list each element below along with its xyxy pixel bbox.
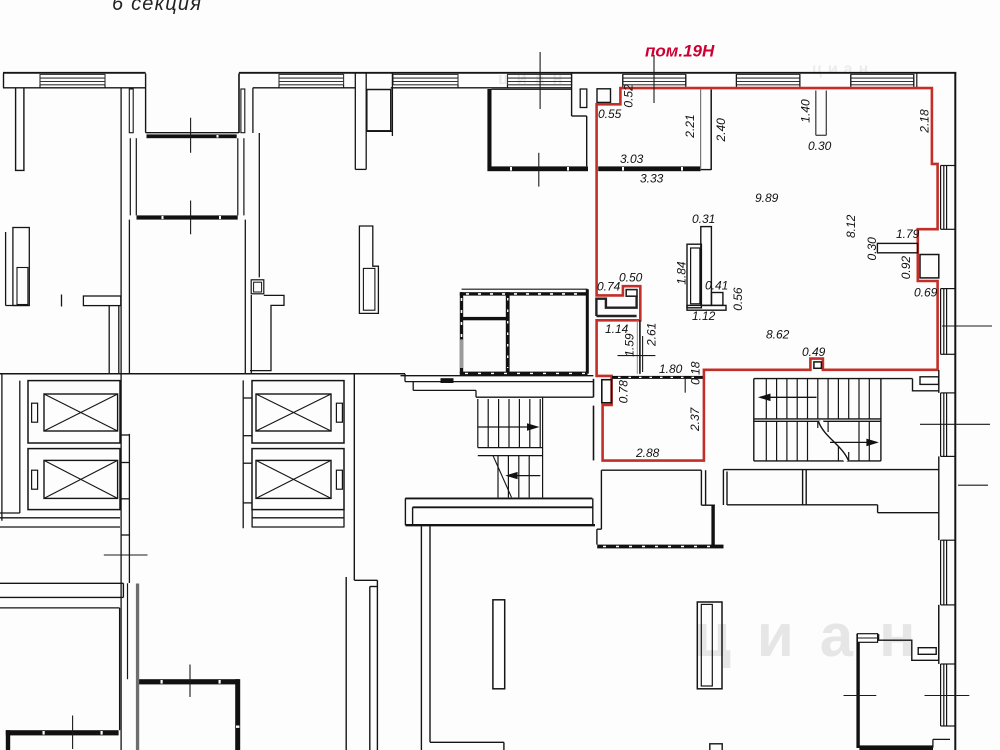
storeroom dashed left wall [460,292,463,373]
window W7 top wall [851,74,914,84]
white column center bottom [493,600,505,689]
elevator shaft C outer [252,381,344,443]
right staircase lower arrow right [830,441,876,443]
window W3 top wall [393,74,458,87]
right wall column of left apartment (x 239-260) [239,74,264,374]
black door jamb piece [441,378,454,383]
door box 0.78 [602,380,612,403]
svg-text:0.78: 0.78 [617,380,631,404]
elevator shaft B cabin with X [44,460,118,498]
svg-text:2.21: 2.21 [683,114,697,138]
room 19H red outline [597,88,938,461]
black L-niche 0.74 [596,296,636,316]
storeroom inner horizontal wall [461,317,507,320]
right staircase treads [766,379,869,461]
storeroom inner vertical wall [506,292,510,373]
storeroom dashed top wall [460,292,588,295]
duct 0.30/1.40 top right [816,91,827,136]
left staircase break line [493,456,512,498]
vent channel x 355-366 [355,73,366,170]
small box at bottom edge [710,744,722,750]
storeroom bottom thick wall [460,372,588,376]
pilaster bar near red step [580,89,587,108]
elevator block top line [0,373,405,375]
bottom-left thick wall room 1 [139,679,240,684]
wall pier verticals between top windows [623,74,917,89]
elevator shaft D cabin with X [256,460,331,498]
svg-text:8.12: 8.12 [844,214,858,238]
wall niche x 571-587 [572,74,587,167]
svg-text:2.88: 2.88 [635,446,660,460]
bottom corridor gray wall [136,584,139,750]
bottom-left thick wall room 2 [6,730,119,735]
right wall window RW3 [941,393,956,457]
storeroom top thin line [462,288,588,290]
left corridor vertical wall [121,88,133,750]
svg-text:1.79: 1.79 [896,227,920,241]
column 0.30 bottom right of plan [697,602,722,689]
vent channel 2.21/2.40 [701,90,712,171]
right wall window RW4 [941,540,956,605]
stair break S-curve with white mask [819,422,849,461]
elevator shaft D outer [252,449,344,510]
right exterior wall outer line [954,73,956,750]
right wall window RW1 [941,166,956,230]
svg-text:0.50: 0.50 [619,271,643,285]
loggia thick top bar [147,134,237,138]
left loggia: top wall step [146,74,239,133]
left staircase lower flight treads [478,456,543,498]
svg-text:0.41: 0.41 [705,279,728,293]
thick interior wall 3.03 [487,166,588,171]
corridor wall below elevators C/D [252,518,344,527]
bottom-left corridor double wall [0,583,123,597]
right wall window RW5 [941,664,956,726]
svg-text:0.30: 0.30 [808,139,832,153]
niche box right of channel [367,73,393,136]
dark room thick left wall [487,89,491,167]
svg-text:циан: циан [812,61,874,78]
left apartment: wall pocket + radiator box [6,228,30,306]
svg-text:1.12: 1.12 [692,309,716,323]
vertical double wall x 421-430 [421,526,504,750]
window W4 top wall [508,74,572,87]
right wall inner face segments [938,370,940,664]
right wall window RW2 [941,289,956,355]
right staircase enclosure [754,379,913,461]
stub 1.79/0.30 at right [877,243,917,252]
1.84 pilaster assembly [687,227,726,311]
svg-text:6 секция: 6 секция [112,0,202,15]
bottom dashed wall of room below red [597,545,723,549]
svg-text:2.18: 2.18 [918,109,932,134]
L-duct lower center [359,226,378,313]
right staircase upper arrow left [761,396,817,398]
svg-text:2.40: 2.40 [714,118,728,143]
loggia side double walls [130,138,244,215]
left staircase upper arrow right [478,426,536,428]
svg-text:0.30: 0.30 [865,237,879,261]
svg-text:0.31: 0.31 [692,212,715,226]
small box 0.50 [626,290,637,297]
small bar box upper vestibule [920,377,939,385]
svg-text:циан: циан [694,602,941,669]
left staircase lower arrow left [508,475,540,477]
svg-text:8.62: 8.62 [766,328,790,342]
vestibule band right of room [723,470,938,513]
thick dashed wall 1.80 [612,376,703,379]
svg-text:1.84: 1.84 [675,261,689,285]
elevator shaft A door [32,403,38,422]
svg-text:0.55: 0.55 [598,107,622,121]
left apartment: T-wall pier [16,88,24,171]
elevator shaft B outer [28,449,120,510]
svg-text:3.33: 3.33 [640,172,664,186]
svg-text:0.69: 0.69 [914,285,938,299]
corridor double wall below left stairs [405,498,593,525]
elevator shaft C door [336,403,342,422]
svg-text:2.61: 2.61 [645,323,659,347]
left small room beside elevators [0,374,20,521]
corridor lines above storeroom [401,374,594,397]
box 0.92 right niche [920,255,939,278]
bottom-left room interior lines [0,608,120,730]
svg-text:2.37: 2.37 [688,406,702,432]
left staircase treads upper flight [478,397,543,497]
elevator shaft A outer [28,381,120,443]
window W1 top wall [40,74,105,87]
svg-text:9.89: 9.89 [755,191,779,205]
storeroom right thick wall [586,289,589,373]
box at red step corner [597,89,611,103]
wall below 1.14 cell (x 637-640) [637,320,640,374]
elevator shaft B door [32,470,38,489]
top exterior wall [3,72,146,74]
box 0.49 on red line [814,362,822,368]
interior L-wall right of loggia room [250,295,284,370]
svg-text:пом.19Н: пом.19Н [645,42,715,61]
svg-text:1.40: 1.40 [799,99,813,123]
room below loggia [129,220,245,374]
window W5 top wall [623,74,686,84]
central vertical wall x=354 [346,374,377,750]
svg-text:1.80: 1.80 [659,362,683,376]
svg-text:0.74: 0.74 [597,280,621,294]
elevator shaft A cabin with X [44,394,118,431]
second corridor double wall [405,524,595,526]
window W6 top wall [736,74,800,84]
loggia thick bottom bar [137,215,238,219]
wall stub left-center (x 84-115) [62,295,121,374]
window W2 top wall [279,74,344,87]
svg-text:3.03: 3.03 [620,152,644,166]
svg-text:0.92: 0.92 [899,256,913,280]
svg-text:1.59: 1.59 [623,333,637,357]
corridor ladder wall left of shafts C/D [243,380,344,528]
elevator shaft C cabin with X [256,394,331,431]
elevator shaft D door [336,470,342,489]
room below red 2.88 [597,470,715,544]
svg-text:0.18: 0.18 [689,361,703,385]
svg-text:0.56: 0.56 [731,287,745,311]
left wall of lower storeroom (x 593.5) [593,379,595,461]
svg-text:0.49: 0.49 [802,345,826,359]
corridor wall below elevators A/B [0,518,120,527]
bottom-right entrance room [856,634,859,748]
svg-text:0.52: 0.52 [622,84,636,108]
